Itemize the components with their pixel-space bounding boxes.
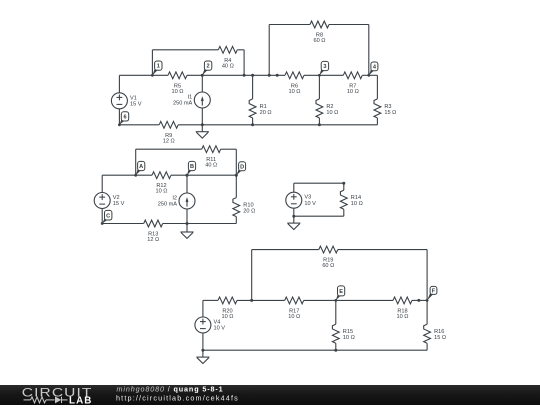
node E [334,286,344,302]
svg-text:6: 6 [123,115,126,121]
wire V3 top [294,182,344,184]
resistor R4 [218,46,237,69]
svg-text:V1: V1 [130,95,137,101]
wire R19 branch right [426,250,428,301]
svg-text:I1: I1 [188,95,193,101]
svg-text:10 Ω: 10 Ω [156,189,168,195]
svg-text:12 Ω: 12 Ω [147,237,159,243]
svg-text:250 mA: 250 mA [173,101,193,107]
svg-text:V3: V3 [304,195,311,201]
wire R4 branch left [151,50,153,76]
svg-text:I2: I2 [172,196,177,202]
node D [235,162,246,177]
svg-text:F: F [432,289,436,295]
resistor R5 [168,72,187,95]
svg-text:http://circuitlab.com/cek44fs: http://circuitlab.com/cek44fs [116,393,239,402]
junction [268,74,271,77]
wire R15 branch [335,300,337,350]
svg-text:minhgo8080 / quang 5-8-1: minhgo8080 / quang 5-8-1 [117,385,224,394]
wire R10 branch [235,175,237,223]
node 2 [201,61,212,77]
wire R16 branch [426,300,428,350]
svg-text:15 V: 15 V [113,201,125,207]
wire V4 branch [202,300,204,350]
svg-text:LAB: LAB [69,395,92,405]
svg-text:10 Ω: 10 Ω [288,314,300,320]
node F [426,286,437,301]
svg-text:60 Ω: 60 Ω [322,263,334,269]
wire R1 branch [252,75,254,125]
wire R11 branch top [136,148,237,150]
ground [287,216,300,229]
ground [180,224,193,239]
node 3 [318,61,329,76]
resistor R7 [343,72,362,95]
wire R19 branch top [252,249,427,251]
node 4 [367,62,378,77]
node C [101,210,112,225]
wire bot bottom horizontal [203,349,427,351]
resistor R11 [202,146,221,169]
resistor R12 [152,172,171,195]
node B [186,161,196,176]
wire R14 branch [343,183,345,216]
svg-text:10 V: 10 V [304,201,316,207]
wire R4 branch top [152,49,244,51]
resistor R20 [218,297,237,320]
wire I1 branch [201,75,203,125]
wire V1 branch [118,75,120,125]
junction [201,349,204,352]
wire top bottom horizontal [119,124,377,126]
junction [250,299,253,302]
svg-text:40 Ω: 40 Ω [205,163,217,169]
wire R19 branch left [251,250,253,301]
svg-text:40 Ω: 40 Ω [222,63,234,69]
junction [276,74,279,77]
footer text: author / title [116,384,239,402]
wire I2 branch [186,175,188,223]
junction [292,215,295,218]
wire R11 branch right [235,149,237,175]
logo resistor-diode glyph [24,396,68,402]
svg-text:1: 1 [157,64,160,70]
junction [334,349,337,352]
current source I2 [158,193,195,209]
voltage source V4 [195,317,225,333]
svg-text:10 Ω: 10 Ω [172,89,184,95]
svg-text:15 Ω: 15 Ω [434,335,446,341]
resistor R17 [285,297,304,320]
resistor R6 [285,72,304,95]
junction [235,174,238,177]
wire V3 bottom [294,215,344,217]
svg-text:12 Ω: 12 Ω [163,138,175,144]
svg-text:10 Ω: 10 Ω [351,201,363,207]
junction [318,123,321,126]
svg-text:V2: V2 [113,195,120,201]
resistor R14 [340,190,362,209]
svg-text:20 Ω: 20 Ω [260,110,272,116]
footer bar [0,385,540,406]
svg-text:15 Ω: 15 Ω [384,110,396,116]
junction [201,74,204,77]
svg-text:E: E [339,289,343,295]
wire R8 branch right [368,25,370,76]
junction [186,174,189,177]
wire V2 branch [101,175,103,223]
junction [417,299,420,302]
svg-text:20 Ω: 20 Ω [243,209,255,215]
wire V3 left branch [293,183,295,216]
wire mid bottom horizontal [102,223,236,225]
junction [251,123,254,126]
svg-text:10 Ω: 10 Ω [347,89,359,95]
resistor R15 [332,324,354,343]
ground [196,125,209,138]
junction [342,182,345,185]
resistor R19 [319,246,338,269]
ground [196,350,209,363]
resistor R10 [233,198,255,217]
wire mid main horizontal [102,174,236,176]
wire R3 branch [376,75,378,125]
current source I1 [173,92,210,108]
wire R8 branch left [268,25,270,76]
svg-text:B: B [190,164,194,170]
wire R4 branch right [243,50,245,76]
svg-text:250 mA: 250 mA [158,202,178,208]
svg-text:10 Ω: 10 Ω [289,89,301,95]
voltage source V3 [286,192,316,208]
svg-text:A: A [139,164,143,170]
resistor R2 [316,99,338,118]
svg-text:15 V: 15 V [130,101,142,107]
voltage source V1 [111,93,141,109]
resistor R9 [159,121,178,144]
svg-text:10 Ω: 10 Ω [222,314,234,320]
svg-text:10 Ω: 10 Ω [397,314,409,320]
svg-text:10 Ω: 10 Ω [326,110,338,116]
wire R11 branch left [135,149,137,175]
svg-text:60 Ω: 60 Ω [314,38,326,44]
svg-text:V4: V4 [214,320,221,326]
svg-text:3: 3 [323,64,326,70]
svg-text:D: D [240,164,244,170]
resistor R16 [424,324,446,343]
svg-text:2: 2 [207,64,210,70]
wire R2 branch [318,75,320,125]
junction [186,222,189,225]
resistor R18 [393,297,412,320]
junction [243,74,246,77]
resistor R3 [374,99,396,118]
node 6 [118,112,129,126]
wire R8 branch top [269,24,369,26]
svg-text:10 Ω: 10 Ω [343,335,355,341]
resistor R13 [144,220,163,243]
junction [201,123,204,126]
resistor R1 [249,99,271,118]
resistor R8 [310,21,329,44]
node 1 [151,61,162,77]
CircuitLab logo wordmark CIRCUIT [22,385,93,407]
wire top main horizontal [119,74,377,76]
node A [134,161,145,176]
voltage source V2 [94,193,124,209]
junction [251,74,254,77]
svg-text:C: C [106,213,110,219]
svg-text:10 V: 10 V [214,326,226,332]
wire bot main horizontal [203,299,427,301]
